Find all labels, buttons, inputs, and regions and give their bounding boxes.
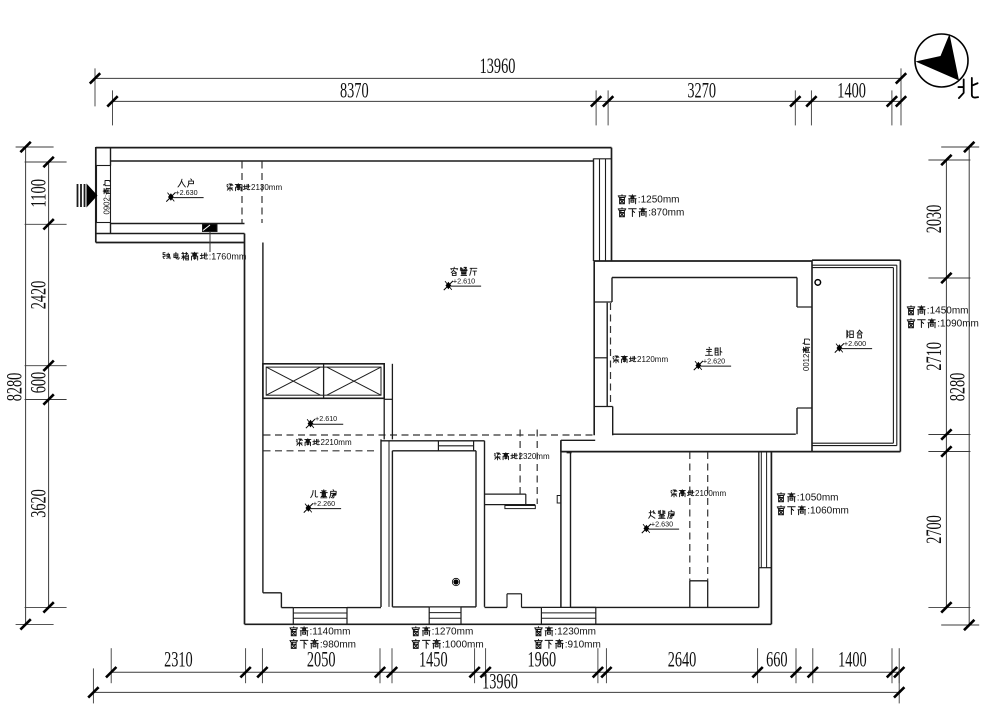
elder room pier — [690, 581, 708, 608]
elder room beam dashes (梁离地2100mm) — [690, 452, 708, 581]
closet with X pattern — [263, 364, 384, 399]
beam dashes over entry (梁离地2130mm) — [242, 162, 262, 224]
svg-text:+2.630: +2.630 — [651, 520, 673, 529]
svg-text:8370: 8370 — [340, 77, 369, 102]
dimension right total 8280 — [941, 142, 979, 630]
bathroom2 beam dashes (梁离地2320mm) — [520, 430, 537, 505]
entry room label 入户 +2.630 — [166, 179, 203, 202]
svg-text:2320mm: 2320mm — [519, 452, 550, 461]
balcony outer walls and rails — [812, 260, 900, 451]
svg-text::1230mm: :1230mm — [554, 627, 596, 638]
bedroom-balcony wall with door opening, label 门高2100 — [797, 261, 812, 452]
dimension left total 8280 — [2, 142, 54, 630]
svg-text:+2.630: +2.630 — [175, 188, 197, 197]
bathroom2 south window — [541, 607, 595, 624]
middle room top wall band — [381, 441, 485, 451]
svg-text::1090mm: :1090mm — [937, 319, 979, 330]
middle room interior bottom — [392, 606, 476, 608]
bathroom2 top wall with door opening — [485, 494, 536, 505]
balcony drain circle — [815, 280, 821, 286]
dimension left row 1100 2420 600 3620 — [25, 157, 67, 613]
svg-text::1450mm: :1450mm — [927, 306, 969, 317]
children bottom wall segment — [347, 607, 381, 609]
svg-text:0902:: 0902: — [102, 195, 111, 215]
master bedroom top wall — [594, 261, 813, 278]
children room south window — [293, 608, 347, 625]
svg-text:+2.600: +2.600 — [844, 339, 866, 348]
wall top outer — [96, 147, 612, 149]
beam label 梁离地2210mm — [296, 438, 352, 447]
svg-text:+2.610: +2.610 — [453, 277, 475, 286]
wall corridor south band — [96, 224, 245, 243]
elder window label 窗高:1050mm / 窗下高:1060mm — [777, 493, 849, 517]
svg-text:+2.610: +2.610 — [315, 414, 337, 423]
elder room east window (vertical) — [759, 452, 772, 625]
beam label 梁离地2100mm — [671, 489, 727, 498]
living room label 客餐厅 +2.610 — [444, 267, 481, 290]
dimension right row 2030 2710 2700 — [921, 155, 970, 613]
svg-text:8280: 8280 — [2, 373, 27, 402]
middle room right wall — [476, 441, 485, 607]
window east of living top (vertical 4-line) — [594, 148, 612, 261]
svg-text::1060mm: :1060mm — [807, 506, 849, 517]
svg-text:2210mm: 2210mm — [321, 438, 352, 447]
bedroom door leaf / beam dash 梁离地2120 — [610, 303, 612, 404]
svg-text:1400: 1400 — [837, 77, 866, 102]
master bedroom bottom wall — [561, 434, 901, 451]
children/middle separating wall — [381, 439, 392, 607]
dimension top row 8370 / 3270 / 1400 — [107, 77, 906, 125]
svg-text:2030: 2030 — [921, 205, 946, 234]
svg-text:0012: 0012 — [802, 354, 811, 371]
window label 窗高:1250mm / 窗下高:870mm — [618, 195, 684, 219]
master bedroom label 主卧 +2.620 — [694, 347, 731, 370]
entry door frame, height label 门高:2090 — [97, 148, 112, 234]
svg-text::1250mm: :1250mm — [638, 195, 680, 206]
svg-text::1760mm: :1760mm — [209, 251, 247, 261]
svg-text:2420: 2420 — [26, 281, 51, 310]
living room beam dashes (梁离地2210mm) — [264, 435, 595, 451]
dimension bottom total 13960 — [88, 668, 904, 703]
svg-text:2710: 2710 — [921, 342, 946, 371]
master bedroom left wall with door opening — [594, 261, 613, 435]
middle room south window — [429, 607, 461, 624]
svg-text:1400: 1400 — [838, 647, 867, 672]
svg-text:2100mm: 2100mm — [695, 489, 726, 498]
beam label 梁离地2130mm — [227, 183, 283, 192]
wall stub below closet — [384, 364, 392, 440]
children window label 窗高:1140mm / 窗下高:980mm — [290, 627, 356, 651]
svg-text:13960: 13960 — [482, 669, 518, 694]
elder room left wall — [557, 440, 571, 607]
dimension bottom row 2310 2050 1450 1960 2640 660 1400 — [106, 647, 904, 684]
svg-text::1000mm: :1000mm — [442, 639, 484, 650]
svg-text:3620: 3620 — [26, 489, 51, 518]
middle room floor drain — [452, 578, 459, 585]
middle window label 窗高:1270mm / 窗下高:1000mm — [412, 627, 484, 651]
svg-text:2640: 2640 — [668, 647, 697, 672]
dimension top total 13960 — [90, 53, 906, 106]
bathroom2 door threshold shelf — [505, 506, 535, 509]
children room interior bottom with step — [263, 593, 293, 608]
svg-text:1100: 1100 — [26, 179, 51, 208]
children room label 儿童房 +2.260 — [304, 490, 341, 513]
svg-text::980mm: :980mm — [320, 639, 356, 650]
elder room interior bottom — [571, 606, 759, 608]
svg-text:+2.620: +2.620 — [703, 357, 725, 366]
svg-text:13960: 13960 — [480, 53, 516, 78]
svg-text::1140mm: :1140mm — [310, 627, 351, 638]
svg-text:2120mm: 2120mm — [637, 355, 668, 364]
svg-text:2310: 2310 — [164, 647, 193, 672]
bathroom2 window label 窗高:1230mm / 窗下高:910mm — [535, 627, 601, 651]
electric box label 强电箱离地:1760mm — [163, 251, 246, 261]
balcony label 阳台 +2.600 — [835, 330, 872, 353]
wall top inner — [111, 160, 594, 162]
svg-text::910mm: :910mm — [565, 639, 601, 650]
svg-text:8280: 8280 — [945, 373, 970, 402]
beam label 梁离地2120mm — [613, 355, 669, 364]
north label 北 — [958, 78, 978, 98]
wall west outer band going south — [245, 234, 263, 625]
beam label 梁离地2320mm — [494, 452, 550, 461]
balcony window label 窗高:1450mm / 窗下高:1090mm — [907, 306, 979, 330]
entry direction arrow — [78, 184, 98, 208]
svg-text:1960: 1960 — [528, 647, 557, 672]
bathroom2 interior bottom with door notch — [485, 594, 542, 608]
wall left outer (entry) — [95, 147, 97, 243]
svg-text:2700: 2700 — [921, 515, 946, 544]
strong electric box symbol — [203, 224, 218, 252]
svg-text::1050mm: :1050mm — [797, 493, 839, 504]
north arrow compass — [915, 34, 968, 87]
svg-text:2130mm: 2130mm — [251, 183, 282, 192]
level marker +2.610 near closet — [306, 414, 343, 428]
svg-text::1270mm: :1270mm — [432, 627, 474, 638]
elder room label 长辈房 +2.630 — [642, 510, 679, 533]
svg-text:3270: 3270 — [687, 77, 716, 102]
svg-text:600: 600 — [26, 372, 51, 394]
svg-text::870mm: :870mm — [648, 208, 684, 219]
svg-text:+2.260: +2.260 — [313, 499, 335, 508]
bottom outer wall — [245, 623, 772, 625]
svg-text:660: 660 — [766, 647, 788, 672]
